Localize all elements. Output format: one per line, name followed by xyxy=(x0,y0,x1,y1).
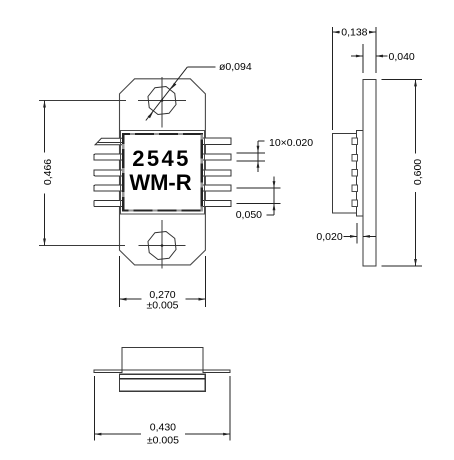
right lead 4 xyxy=(202,185,231,191)
bottom view: base plate xyxy=(119,374,205,391)
svg-text:2545: 2545 xyxy=(132,146,191,171)
left lead 5 xyxy=(94,200,123,206)
dimension 10x0.020 (lead thickness) xyxy=(237,137,314,172)
svg-text:WM-R: WM-R xyxy=(129,170,191,195)
svg-text:ø0,094: ø0,094 xyxy=(219,61,252,73)
dimension 0,050 (lead pitch) xyxy=(236,176,281,221)
dimension 0,430 +/-0.005 (lead span) xyxy=(94,376,230,447)
svg-text:0,466: 0,466 xyxy=(42,159,54,185)
top hole vertical centerline xyxy=(161,77,163,128)
right lead 1 xyxy=(202,138,231,145)
dimension 0,466 (hole spacing) xyxy=(42,101,54,246)
side: seal ring strip xyxy=(357,130,363,216)
svg-text:0,600: 0,600 xyxy=(412,159,424,185)
right lead 5 xyxy=(202,200,231,206)
side: cap block xyxy=(332,133,356,213)
pin 1 lead (top-left, formed) xyxy=(95,138,123,145)
bottom view: left lead xyxy=(94,370,122,372)
dimension 0,020 (standoff) xyxy=(316,223,375,244)
side: base plate xyxy=(363,79,376,266)
cap inner rect (lid, dashed thick) xyxy=(123,134,202,210)
right lead 2 xyxy=(202,154,231,160)
top hole horizontal centerline / 0,466 top extension xyxy=(39,100,186,102)
svg-text:0,020: 0,020 xyxy=(316,231,342,243)
svg-text:0,138: 0,138 xyxy=(341,27,367,39)
bottom hole horizontal centerline / 0,466 bottom extension xyxy=(39,245,186,247)
right lead 3 xyxy=(202,170,231,176)
left lead 2 xyxy=(94,154,123,160)
left lead 3 xyxy=(94,170,123,176)
left lead 4 xyxy=(94,185,123,191)
bottom hole center dot xyxy=(161,244,164,247)
side: lead stub 2 xyxy=(352,154,357,161)
bottom view: right lead xyxy=(203,370,230,372)
dimension 0,600 (overall height) xyxy=(382,79,424,266)
package body outline xyxy=(120,79,206,265)
top hole center dot xyxy=(161,99,164,102)
svg-text:10×0.020: 10×0.020 xyxy=(269,137,313,149)
bottom mounting hole octagon xyxy=(148,231,176,259)
bottom view: cap block xyxy=(122,348,203,371)
svg-text:±0.005: ±0.005 xyxy=(147,435,179,447)
diameter leader &#8960;0,094 xyxy=(146,61,252,120)
side: lead stub 4 xyxy=(352,185,357,192)
bottom view: plate inner line xyxy=(119,378,205,380)
dimension 0,040 (plate thickness) xyxy=(351,44,415,73)
dimension 0,270 +/-0.005 (body width) xyxy=(120,256,206,311)
svg-text:0,430: 0,430 xyxy=(150,422,176,434)
dimension 0,138 xyxy=(332,27,376,131)
bottom hole vertical centerline xyxy=(161,220,163,268)
top mounting hole octagon xyxy=(148,86,176,114)
side: lead stub 5 xyxy=(352,200,357,207)
side: lead stub 1 xyxy=(352,138,357,145)
svg-text:±0.005: ±0.005 xyxy=(146,299,178,311)
svg-text:0,040: 0,040 xyxy=(389,51,415,63)
side: lead stub 3 xyxy=(352,170,357,177)
cap outer rect xyxy=(120,131,204,214)
svg-text:0,050: 0,050 xyxy=(236,209,262,221)
